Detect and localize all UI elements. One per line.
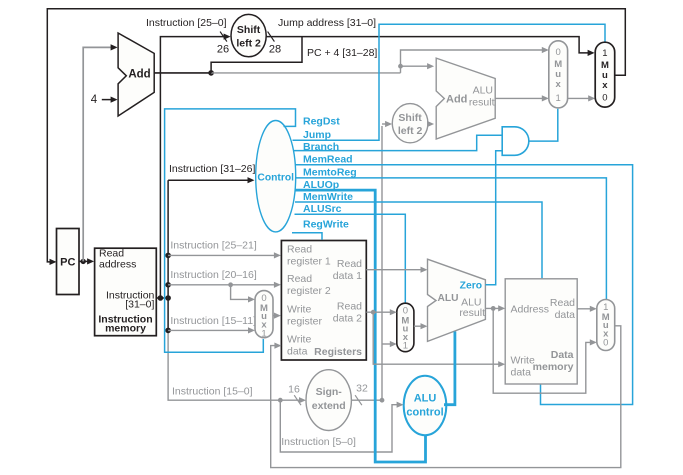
node PC+4 junction bbox=[208, 70, 214, 76]
svg-text:RegDst: RegDst bbox=[303, 116, 340, 128]
svg-text:ALU: ALU bbox=[438, 293, 459, 304]
wire Instruction [20-16] branch to RegDst mux bbox=[228, 282, 233, 287]
wire ALU result around to MemtoReg mux bbox=[493, 308, 595, 393]
wire Sign-extend output bbox=[351, 126, 382, 400]
svg-text:Shift: Shift bbox=[398, 112, 422, 124]
wire Branch control bbox=[294, 135, 502, 150]
wire instruction output bbox=[156, 297, 168, 299]
svg-text:PC: PC bbox=[60, 257, 75, 269]
svg-text:Instruction [25–21]: Instruction [25–21] bbox=[170, 240, 256, 252]
node PC+4 branch junction bbox=[398, 64, 403, 69]
wire memory read data to MemtoReg mux bbox=[577, 308, 595, 310]
wire PC to instruction memory bbox=[79, 260, 92, 262]
wire Zero to AND gate bbox=[485, 151, 502, 285]
svg-text:1: 1 bbox=[403, 341, 408, 352]
wire ALUSrc control bbox=[295, 214, 406, 302]
svg-text:left 2: left 2 bbox=[398, 125, 423, 137]
svg-text:Instruction [15–11]: Instruction [15–11] bbox=[170, 315, 256, 327]
wire MemtoReg mux output to register write data bbox=[271, 326, 621, 468]
wire Instruction [20-16] bbox=[165, 282, 171, 288]
svg-text:Write: Write bbox=[287, 334, 311, 346]
svg-text:Add: Add bbox=[128, 69, 150, 81]
svg-text:32: 32 bbox=[356, 382, 368, 394]
svg-text:Control: Control bbox=[257, 173, 294, 184]
svg-text:data: data bbox=[555, 309, 576, 321]
wire PCSrc mux output to jump mux bbox=[568, 97, 594, 99]
wire RegDst mux output bbox=[273, 315, 279, 317]
svg-text:left 2: left 2 bbox=[236, 37, 261, 49]
svg-text:Read: Read bbox=[287, 244, 312, 256]
memory Instruction memory bbox=[95, 248, 157, 336]
wire Read data 2 to memory write data bbox=[373, 312, 503, 364]
AND gate (branch taken) bbox=[502, 127, 529, 156]
svg-text:memory: memory bbox=[105, 323, 146, 335]
wire sign-extend branch to ALUSrc mux bbox=[382, 343, 395, 345]
svg-text:Instruction [15–0]: Instruction [15–0] bbox=[172, 385, 253, 397]
wire sign-extend to shift left 2 bbox=[382, 123, 390, 125]
wire ALU control output (thick) bbox=[444, 332, 455, 405]
control unit Control bbox=[256, 121, 296, 232]
svg-text:0: 0 bbox=[602, 92, 607, 103]
wire shift left 2 to branch adder bbox=[428, 123, 432, 125]
svg-text:Instruction [25–0]: Instruction [25–0] bbox=[146, 17, 227, 29]
wire RegDst control bbox=[165, 109, 296, 352]
svg-text:data 1: data 1 bbox=[333, 270, 362, 282]
svg-text:16: 16 bbox=[288, 383, 300, 395]
svg-text:Zero: Zero bbox=[460, 280, 482, 291]
mux RegDst (write register) bbox=[255, 291, 273, 338]
svg-text:Instruction [20–16]: Instruction [20–16] bbox=[170, 269, 256, 281]
svg-text:Branch: Branch bbox=[303, 141, 339, 153]
svg-text:26: 26 bbox=[217, 44, 229, 56]
svg-text:Shift: Shift bbox=[237, 24, 261, 36]
wire MemRead control bbox=[296, 165, 633, 405]
svg-text:4: 4 bbox=[91, 94, 98, 106]
control ALU control bbox=[404, 376, 447, 435]
svg-text:control: control bbox=[406, 407, 443, 419]
node instruction output dot B bbox=[165, 295, 171, 301]
svg-text:Instruction [5–0]: Instruction [5–0] bbox=[281, 436, 356, 448]
svg-text:ALU: ALU bbox=[414, 393, 437, 405]
wire Instruction [25-21] bbox=[165, 253, 171, 259]
wire instruction hub vertical bbox=[167, 180, 169, 330]
svg-text:Registers: Registers bbox=[314, 346, 362, 358]
wire PC+4 into branch adder bbox=[401, 65, 433, 67]
wire PC+4 [31-28] concat branch bbox=[211, 37, 302, 73]
svg-text:1: 1 bbox=[261, 329, 266, 340]
svg-text:MemWrite: MemWrite bbox=[303, 191, 353, 203]
wire Read data 2 bbox=[366, 311, 394, 313]
svg-text:Data: Data bbox=[551, 349, 574, 361]
svg-text:Jump address [31–0]: Jump address [31–0] bbox=[278, 17, 376, 29]
svg-text:Read: Read bbox=[550, 297, 575, 309]
wire ALU result to data memory bbox=[485, 307, 503, 309]
svg-text:x: x bbox=[556, 79, 562, 90]
svg-text:PC + 4 [31–28]: PC + 4 [31–28] bbox=[307, 47, 377, 59]
wire Instruction [25-0] up to Shift left 2 bbox=[160, 37, 227, 298]
svg-text:0: 0 bbox=[556, 47, 561, 58]
register file Registers bbox=[281, 241, 366, 361]
shifter Shift left 2 (jump) bbox=[231, 14, 266, 56]
wire Instruction [15-11] bbox=[165, 328, 171, 334]
svg-text:data: data bbox=[287, 346, 308, 358]
svg-text:register 1: register 1 bbox=[287, 256, 331, 268]
wire Read data 1 to ALU bbox=[366, 269, 425, 271]
svg-text:result: result bbox=[459, 307, 485, 319]
wire MemWrite control bbox=[295, 202, 542, 278]
wire MemtoReg control bbox=[296, 178, 607, 299]
adder Add ALU result (branch) bbox=[436, 58, 495, 139]
mux Jump (black) bbox=[595, 42, 615, 107]
svg-text:ALUOp: ALUOp bbox=[303, 179, 339, 191]
svg-text:Sign-: Sign- bbox=[316, 386, 343, 398]
wire ALUSrc mux output to ALU bbox=[414, 325, 426, 327]
wire PC up to Add bbox=[83, 47, 115, 261]
svg-text:ALUSrc: ALUSrc bbox=[303, 203, 342, 215]
wire ALUOp control (thick) bbox=[296, 190, 426, 462]
svg-text:Jump: Jump bbox=[303, 129, 331, 141]
svg-text:1: 1 bbox=[602, 48, 607, 59]
ALU bbox=[428, 259, 486, 341]
svg-text:ALU: ALU bbox=[473, 85, 493, 97]
wire AND output to PCSrc mux select bbox=[529, 109, 558, 141]
svg-text:Write: Write bbox=[511, 355, 535, 367]
wire Instruction [15-0] to Sign-extend bbox=[278, 398, 283, 403]
svg-text:extend: extend bbox=[312, 400, 346, 412]
wire branch adder output to PCSrc mux bbox=[495, 97, 547, 99]
adder Add (PC+4) bbox=[118, 33, 154, 116]
svg-text:Address: Address bbox=[511, 304, 550, 316]
svg-text:Read: Read bbox=[337, 258, 362, 270]
wire Add output to junction bbox=[154, 72, 211, 74]
svg-text:Read: Read bbox=[337, 301, 362, 313]
wire Jump control bbox=[293, 24, 606, 140]
wire Instruction [5-0] bbox=[280, 400, 401, 452]
sign extender Sign-extend bbox=[306, 370, 351, 431]
svg-text:Read: Read bbox=[287, 273, 312, 285]
svg-text:result: result bbox=[469, 97, 495, 109]
svg-text:data 2: data 2 bbox=[333, 313, 362, 325]
wire PC+4 continues right (gray) bbox=[211, 72, 400, 74]
register PC bbox=[57, 229, 80, 295]
svg-text:Write: Write bbox=[287, 304, 311, 316]
node instruction output dot A bbox=[158, 295, 164, 301]
svg-text:[31–0]: [31–0] bbox=[125, 299, 154, 311]
svg-text:1: 1 bbox=[556, 93, 561, 104]
svg-text:address: address bbox=[99, 259, 136, 271]
svg-text:28: 28 bbox=[269, 44, 281, 56]
svg-text:register: register bbox=[287, 316, 323, 328]
svg-text:Add: Add bbox=[446, 94, 467, 106]
svg-text:data: data bbox=[511, 367, 532, 379]
mux ALUSrc bbox=[397, 303, 414, 352]
shifter Shift left 2 (branch) bbox=[392, 104, 428, 143]
svg-text:Instruction [31–26]: Instruction [31–26] bbox=[169, 163, 255, 175]
svg-text:0: 0 bbox=[603, 337, 608, 348]
svg-text:MemtoReg: MemtoReg bbox=[303, 167, 357, 179]
mux PCSrc (branch) bbox=[549, 41, 568, 108]
memory Data memory bbox=[505, 279, 577, 384]
wire Instruction [31-26] to Control bbox=[168, 179, 252, 181]
svg-text:RegWrite: RegWrite bbox=[303, 218, 349, 230]
wire RegWrite control bbox=[292, 233, 322, 240]
svg-text:register 2: register 2 bbox=[287, 285, 331, 297]
wire jump address to jump mux bbox=[266, 37, 592, 53]
wire PC+4 up to branch adder and PCSrc mux bbox=[401, 50, 547, 73]
wire / PC feedback frame from jump mux output bbox=[47, 9, 625, 262]
svg-text:memory: memory bbox=[533, 361, 574, 373]
wire instruction hub to [15-0] bbox=[168, 330, 280, 400]
mux MemtoReg bbox=[597, 300, 615, 351]
svg-text:x: x bbox=[602, 80, 608, 91]
svg-text:MemRead: MemRead bbox=[303, 154, 353, 166]
